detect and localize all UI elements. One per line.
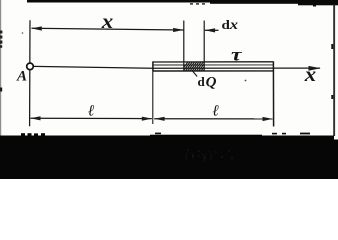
- svg-text:d: d: [198, 74, 206, 89]
- svg-text:Q: Q: [206, 74, 217, 90]
- svg-text:x: x: [304, 64, 317, 86]
- svg-text:A: A: [16, 69, 27, 85]
- svg-text:ℓ: ℓ: [213, 103, 220, 120]
- svg-text:dx: dx: [222, 17, 239, 33]
- svg-text:τ: τ: [231, 45, 243, 65]
- svg-text:(τ-γ): (τ-γ): [185, 150, 214, 162]
- svg-text:x: x: [101, 11, 114, 33]
- svg-text:ℓ: ℓ: [88, 102, 95, 119]
